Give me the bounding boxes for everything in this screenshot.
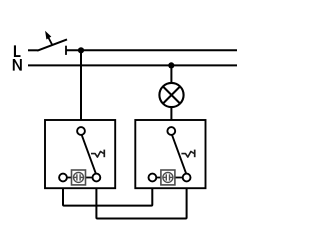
junction dot on N: [168, 62, 174, 68]
wire L main run: [66, 49, 237, 51]
net label L: [14, 45, 21, 57]
wire glow lamp to S1 right terminal: [85, 177, 92, 179]
S2 terminal left (bottom): [149, 174, 157, 182]
switch S0 actuation arrow: [45, 31, 52, 46]
wire glow lamp to S2 right terminal: [175, 177, 183, 179]
glow lamp indicator H2 in S2: [161, 170, 175, 185]
lamp E1: [159, 83, 183, 107]
wire correspondent rail B: S1 right terminal to S2 right terminal: [96, 189, 186, 219]
net label N: [13, 59, 22, 71]
S2 illumination mark (squiggle): [181, 150, 194, 158]
S1 terminal left (bottom): [59, 174, 67, 182]
wire from L junction down to switch box S1: [80, 50, 82, 119]
wire S1 left terminal to glow lamp: [67, 177, 72, 179]
switch box S2 outline: [135, 120, 205, 188]
wire L stub from label: [28, 49, 38, 51]
wire N main run: [28, 64, 237, 66]
wire from lamp E1 down to switch box S2: [170, 107, 172, 120]
S1 terminal right (bottom): [93, 174, 101, 182]
S1 illumination mark (squiggle): [91, 150, 104, 158]
S1 common terminal (top): [77, 127, 85, 135]
switch S0 fixed contact tick: [65, 46, 67, 55]
wire S2 left terminal to glow lamp: [156, 177, 161, 179]
switch box S1 outline: [45, 120, 115, 188]
S1 changeover blade: [82, 135, 96, 173]
switch S0 blade (supply disconnect): [37, 39, 67, 50]
glow lamp indicator H1 in S1: [72, 170, 86, 185]
S2 changeover blade: [172, 135, 186, 173]
S2 terminal right (bottom): [183, 174, 191, 182]
wire correspondent rail A: S1 left terminal to S2 left terminal: [63, 189, 152, 206]
S2 common terminal (top): [167, 127, 175, 135]
wire from N junction down to lamp E1: [170, 65, 172, 83]
junction dot on L: [78, 47, 84, 53]
